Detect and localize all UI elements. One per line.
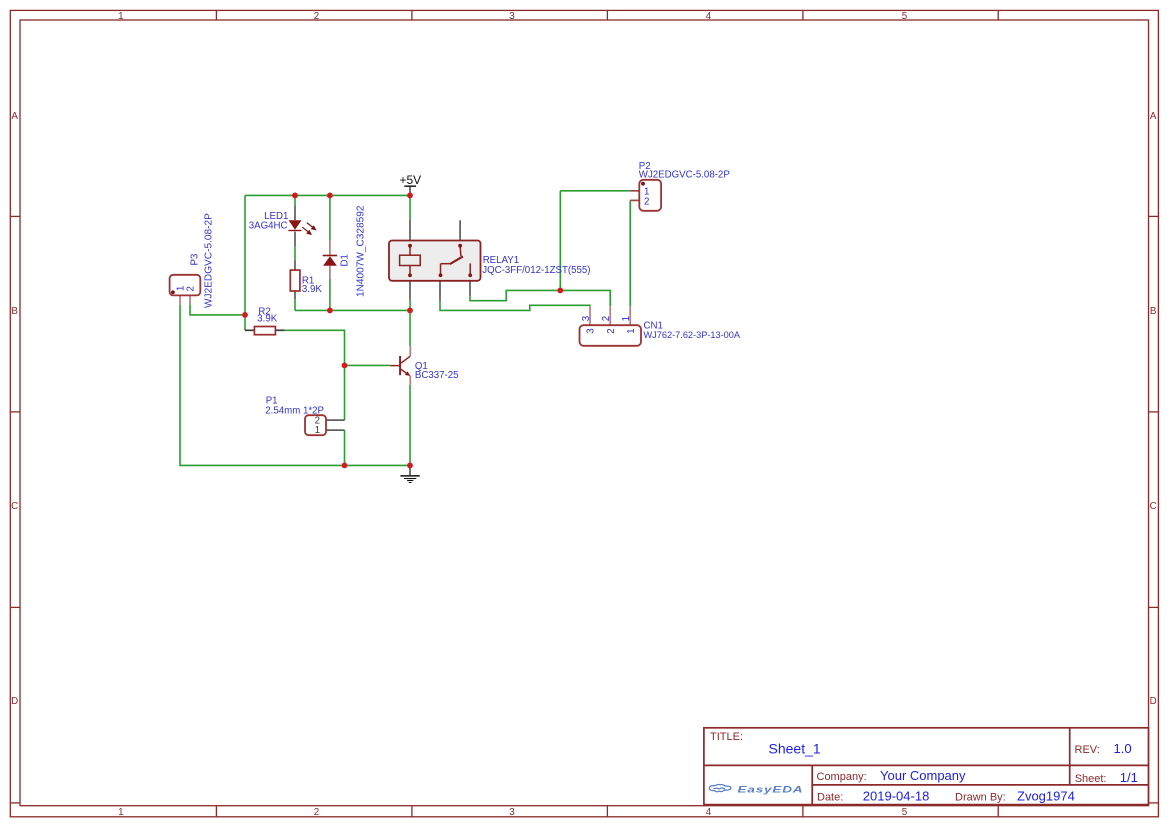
- svg-text:4: 4: [706, 807, 712, 818]
- pin +5V stem: [409, 186, 411, 194]
- junction D1 bottom node: [327, 308, 333, 314]
- pin P3 1: [179, 295, 181, 304]
- svg-text:BC337-25: BC337-25: [415, 370, 459, 381]
- wire P2 pin1 vertical: [559, 191, 561, 291]
- svg-text:1N4007W_C328592: 1N4007W_C328592: [356, 205, 367, 297]
- wire D1 top: [329, 195, 331, 240]
- pin relay coil bottom: [409, 281, 411, 300]
- EasyEDA logo: [709, 784, 803, 795]
- svg-text:D: D: [1150, 696, 1157, 707]
- pin LED bottom: [294, 232, 296, 246]
- wire P3 pin1 to ground rail: [180, 305, 410, 466]
- junction LED1 top on +5V rail: [292, 193, 298, 199]
- svg-text:C: C: [1150, 501, 1157, 512]
- svg-text:Zvog1974: Zvog1974: [1017, 789, 1075, 804]
- svg-text:JQC-3FF/012-1ZST(555): JQC-3FF/012-1ZST(555): [482, 265, 590, 276]
- pin D1 bottom: [329, 266, 331, 279]
- connector CN1: [580, 316, 642, 346]
- svg-text:WJ2EDGVC-5.08-2P: WJ2EDGVC-5.08-2P: [639, 170, 730, 181]
- svg-text:A: A: [11, 111, 18, 122]
- relay RELAY1: [389, 241, 481, 281]
- svg-text:Sheet:: Sheet:: [1075, 773, 1107, 785]
- wire relay coil bottom to collector node: [409, 300, 411, 311]
- wire LED-R1 mid: [294, 246, 296, 261]
- svg-text:2: 2: [186, 286, 197, 291]
- svg-text:Sheet_1: Sheet_1: [769, 740, 821, 756]
- frame row ticks left: [10, 216, 20, 803]
- pin Q1 emitter: [409, 376, 411, 385]
- pin CN1 2: [609, 306, 611, 325]
- svg-text:2: 2: [644, 197, 649, 208]
- svg-text:1: 1: [621, 316, 632, 321]
- svg-text:4: 4: [706, 11, 712, 22]
- svg-text:2: 2: [314, 11, 319, 22]
- svg-text:2: 2: [606, 328, 617, 333]
- svg-text:3AG4HC: 3AG4HC: [249, 220, 288, 231]
- svg-text:B: B: [11, 306, 18, 317]
- svg-text:D: D: [11, 696, 18, 707]
- pin CN1 1: [629, 306, 631, 325]
- wire P3 pin2 to junction: [190, 305, 245, 315]
- svg-text:Company:: Company:: [817, 771, 867, 783]
- svg-text:Date:: Date:: [817, 791, 843, 803]
- frame column numbers bottom: [118, 807, 908, 818]
- svg-text:5: 5: [902, 807, 908, 818]
- wire P1 pin1 to ground rail: [344, 430, 346, 465]
- junction P2 pin1 / relay NO / CN1 pin2 node: [557, 288, 563, 294]
- wire P2 pin2 to CN1 pin1: [629, 200, 631, 306]
- pin relay common stub: [459, 220, 461, 240]
- svg-text:Your Company: Your Company: [880, 768, 966, 783]
- svg-text:3: 3: [581, 316, 592, 321]
- svg-text:2.54mm 1*2P: 2.54mm 1*2P: [265, 405, 324, 416]
- svg-text:+5V: +5V: [399, 173, 421, 187]
- ground symbol: [400, 476, 419, 483]
- svg-text:3.9K: 3.9K: [257, 313, 277, 324]
- pin R1 top: [294, 261, 296, 271]
- svg-text:A: A: [1150, 111, 1157, 122]
- svg-text:5: 5: [902, 11, 908, 22]
- pin relay NO bottom: [469, 281, 471, 296]
- wire relay coil top: [409, 195, 411, 220]
- svg-text:3.9K: 3.9K: [302, 284, 322, 295]
- frame row ticks right: [1149, 216, 1159, 803]
- svg-text:1/1: 1/1: [1120, 770, 1138, 785]
- pin R2 right: [275, 329, 284, 331]
- svg-text:2019-04-18: 2019-04-18: [863, 788, 930, 803]
- svg-text:Drawn By:: Drawn By:: [955, 791, 1006, 803]
- wire bottom rail LED/D1: [295, 309, 410, 311]
- pin R1 bottom: [294, 291, 296, 299]
- frame column ticks top: [216, 10, 998, 20]
- pin R2 left: [245, 329, 254, 331]
- +5V power symbol: [399, 173, 421, 187]
- wire R1 bottom to rail: [294, 299, 296, 310]
- junction D1 top on +5V rail: [327, 193, 333, 199]
- svg-text:P3: P3: [190, 254, 201, 266]
- svg-text:1.0: 1.0: [1114, 741, 1132, 756]
- transistor Q1: [390, 356, 410, 376]
- wire D1 bottom: [329, 279, 331, 310]
- pale red pins: [180, 191, 639, 385]
- pin CN1 3: [589, 306, 591, 325]
- labels: [190, 161, 741, 417]
- svg-text:WJ2EDGVC-5.08-2P: WJ2EDGVC-5.08-2P: [204, 213, 215, 308]
- resistor R2: [254, 327, 275, 335]
- LED LED1 symbol: [288, 220, 315, 234]
- P1 pins dark: [326, 420, 345, 430]
- svg-text:REV:: REV:: [1075, 744, 1100, 756]
- wires (green): [180, 191, 630, 466]
- junction relay coil / collector node: [407, 308, 413, 314]
- junction +5V node: [407, 193, 413, 199]
- wire collector: [409, 310, 411, 346]
- connector P1: [305, 415, 326, 436]
- svg-text:1: 1: [626, 328, 637, 333]
- frame row letters left: [11, 111, 18, 707]
- frame row letters right: [1150, 111, 1157, 707]
- svg-text:2: 2: [601, 316, 612, 321]
- pin relay NC bottom: [439, 281, 441, 302]
- title block borders: [704, 728, 1149, 805]
- pin P2 2: [630, 199, 639, 201]
- wire relay NC to CN1 pin3: [440, 301, 590, 310]
- svg-text:TITLE:: TITLE:: [710, 731, 743, 743]
- wire +5V top rail: [245, 194, 410, 196]
- svg-text:WJ762-7.62-3P-13-00A: WJ762-7.62-3P-13-00A: [644, 330, 741, 340]
- wire relay NO to CN1 pin2: [470, 290, 610, 306]
- svg-text:3: 3: [586, 328, 597, 333]
- wire base: [345, 364, 391, 366]
- pin D1 top: [329, 241, 331, 256]
- junction ground node: [407, 463, 413, 469]
- svg-text:2: 2: [314, 807, 319, 818]
- svg-text:1: 1: [118, 807, 123, 818]
- resistor R1: [290, 270, 300, 291]
- svg-text:3: 3: [509, 11, 515, 22]
- connector P3: [170, 275, 201, 296]
- wire P2 pin1 horizontal: [560, 190, 630, 192]
- wire emitter to ground rail: [409, 385, 411, 466]
- gray pins: [245, 186, 470, 475]
- frame column numbers top: [118, 11, 908, 22]
- frame column ticks bottom: [216, 806, 998, 817]
- pin P3 2: [189, 295, 191, 304]
- junction P1 pin1 on ground rail: [342, 463, 348, 469]
- wire LED column top: [294, 195, 296, 205]
- svg-text:D1: D1: [340, 254, 351, 266]
- pin Q1 collector: [409, 346, 411, 356]
- diode D1 symbol: [323, 256, 337, 266]
- svg-text:3: 3: [509, 807, 515, 818]
- svg-text:C: C: [11, 501, 18, 512]
- wire R2 right to base junction: [285, 330, 345, 420]
- pin P2 1: [630, 190, 639, 192]
- svg-text:EasyEDA: EasyEDA: [738, 784, 804, 795]
- junction P3 pin2 / R2 node: [242, 312, 248, 318]
- pin LED top: [294, 205, 296, 220]
- wire left vertical to R2: [244, 195, 246, 330]
- junction Q1 base node: [342, 363, 348, 369]
- pin relay coil top: [409, 220, 411, 241]
- svg-text:B: B: [1150, 306, 1157, 317]
- svg-text:1: 1: [118, 11, 123, 22]
- svg-text:1: 1: [315, 425, 320, 436]
- connector P2: [639, 180, 661, 211]
- pin ground stem: [409, 465, 411, 475]
